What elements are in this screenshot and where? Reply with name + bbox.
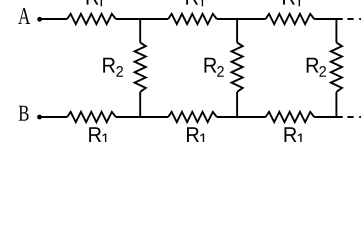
resistor R2 (right shunt) — [331, 43, 342, 92]
wire junction 3 bottom stub — [335, 92, 337, 117]
wire top rail: A dot to R1a — [40, 18, 68, 20]
resistor R1 (top right) — [266, 14, 315, 24]
resistor R1 (top left) — [67, 14, 116, 24]
wire bottom rail: R1f past junction 3 — [314, 116, 343, 118]
label R2 right — [307, 58, 319, 73]
label R1 top right — [283, 0, 295, 5]
wire bottom rail dashed continuation — [347, 116, 353, 118]
resistor R1 (bottom middle) — [168, 112, 217, 122]
wire junction 1 bottom stub — [139, 92, 141, 117]
wire top rail: R1a to R1b — [116, 18, 168, 20]
wire bottom rail: R1d to R1e — [116, 116, 168, 118]
label R2 middle — [204, 58, 216, 73]
wire top rail: R1c past junction 3 — [314, 18, 343, 20]
node A label — [18, 8, 30, 24]
node A terminal dot — [37, 17, 42, 22]
resistor R1 (bottom right) — [266, 112, 315, 122]
wire top rail: R1b to R1c — [217, 18, 266, 20]
wire junction 2 top stub — [236, 19, 238, 43]
wire junction 1 top stub — [139, 19, 141, 43]
wire junction 2 bottom stub — [236, 92, 238, 117]
resistor R1 (bottom left) — [67, 112, 116, 122]
wire bottom rail: R1e to R1f — [217, 116, 266, 118]
label R1 bottom middle — [187, 127, 199, 142]
label R1 top left — [87, 0, 99, 5]
label R1 top middle — [186, 0, 198, 5]
node B terminal dot — [37, 115, 42, 120]
resistor R1 (top middle) — [168, 14, 217, 24]
label R2 left — [103, 58, 115, 73]
resistor R2 (middle shunt) — [232, 43, 243, 92]
label R1 bottom right — [284, 127, 296, 142]
resistor R2 (left shunt) — [135, 43, 146, 92]
wire top rail dashed continuation — [347, 18, 353, 20]
wire bottom rail: B dot to R1d — [40, 116, 68, 118]
label R1 bottom left — [89, 127, 101, 142]
node B label — [19, 106, 29, 121]
wire junction 3 top stub — [335, 19, 337, 43]
